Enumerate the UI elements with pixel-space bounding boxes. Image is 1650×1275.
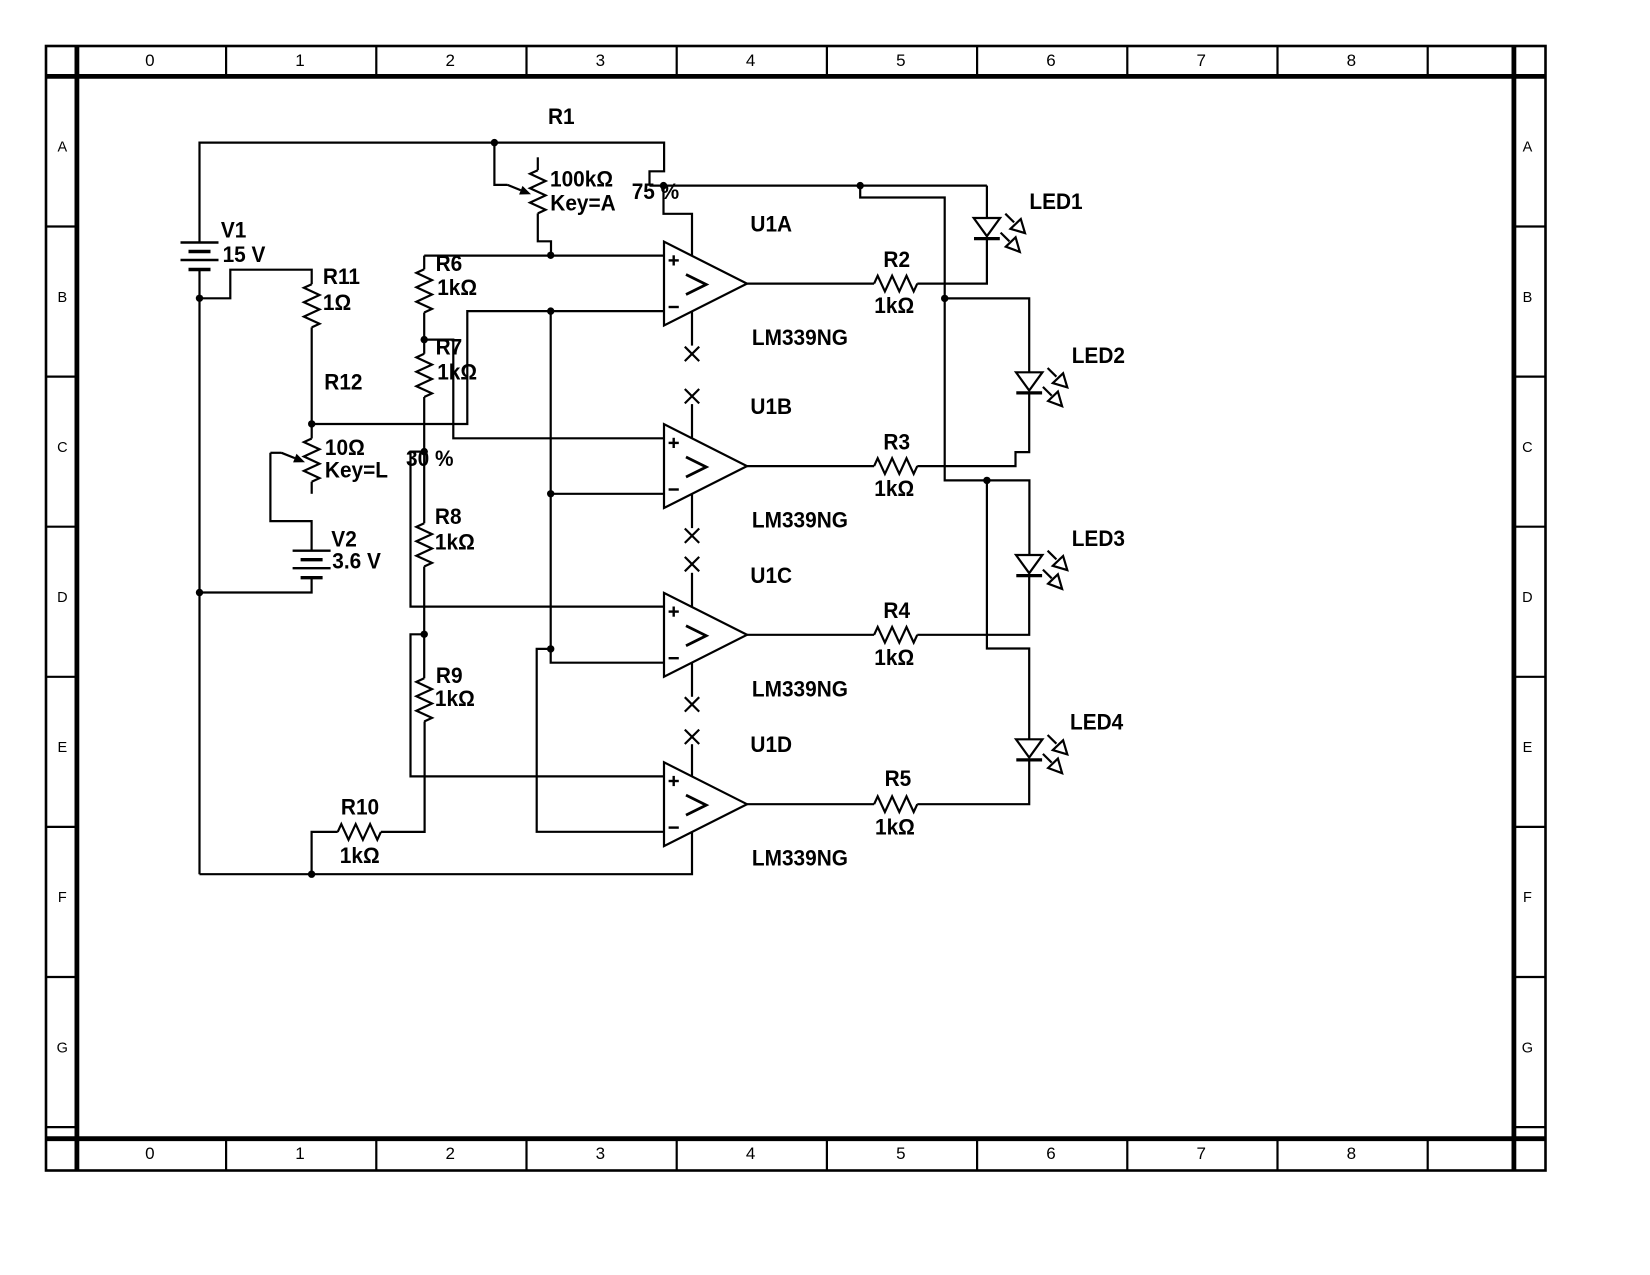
svg-text:5: 5 — [896, 51, 905, 70]
svg-text:1kΩ: 1kΩ — [874, 475, 914, 501]
svg-text:R2: R2 — [883, 246, 910, 272]
svg-text:1Ω: 1Ω — [323, 289, 351, 315]
battery V1 — [181, 241, 219, 243]
junction V1 minus / R11 branch — [196, 295, 203, 302]
svg-text:4: 4 — [746, 1144, 755, 1163]
svg-text:LED4: LED4 — [1070, 709, 1123, 735]
svg-text:1: 1 — [295, 51, 304, 70]
svg-text:R6: R6 — [436, 250, 463, 276]
wire R4 to LED3 cathode — [917, 576, 1029, 635]
U1B VCC pin (unconnected) — [685, 389, 699, 403]
svg-text:LM339NG: LM339NG — [752, 676, 848, 702]
wire R10 right to R9 bottom — [381, 722, 425, 832]
wire V+ left rail and top rail — [200, 143, 665, 875]
wire V2 minus to left rail — [200, 578, 312, 593]
potentiometer R12 body — [311, 424, 313, 439]
resistor R8 — [423, 452, 425, 524]
svg-text:6: 6 — [1046, 51, 1055, 70]
svg-text:A: A — [57, 140, 67, 156]
svg-text:U1B: U1B — [750, 393, 792, 419]
resistor R2 — [874, 276, 917, 292]
wire V+ to LED4 anode — [987, 480, 1029, 739]
LED LED2 — [1016, 372, 1042, 390]
wire U1D output — [747, 803, 874, 805]
junction R7/R8 node — [421, 448, 428, 455]
svg-text:U1C: U1C — [750, 562, 792, 588]
svg-text:100kΩ: 100kΩ — [550, 166, 613, 192]
junction inverting bus / U1B minus — [547, 490, 554, 497]
junction bottom rail / R10 branch — [308, 871, 315, 878]
svg-text:F: F — [1523, 890, 1532, 906]
battery V2 — [293, 550, 331, 552]
svg-text:4: 4 — [746, 51, 755, 70]
svg-text:U1D: U1D — [750, 731, 792, 757]
svg-text:15 V: 15 V — [223, 241, 266, 267]
svg-text:E: E — [1523, 740, 1533, 756]
resistor R4 — [874, 627, 917, 643]
wire bus node to U1D inverting input — [537, 649, 664, 832]
svg-text:R9: R9 — [436, 662, 463, 688]
junction V+ / LED2 anode branch — [941, 295, 948, 302]
wire R2 to LED1 cathode — [917, 239, 987, 284]
junction R1 bottom on U1A+ net — [547, 252, 554, 259]
wire U1B inverting input — [551, 493, 664, 495]
svg-text:V1: V1 — [221, 217, 246, 243]
svg-text:3: 3 — [596, 1144, 605, 1163]
svg-text:D: D — [1522, 590, 1532, 606]
svg-text:R5: R5 — [885, 765, 912, 791]
svg-text:5: 5 — [896, 1144, 905, 1163]
svg-text:1kΩ: 1kΩ — [435, 529, 475, 555]
resistor R3 — [874, 458, 917, 474]
U1D VCC pin (unconnected) — [685, 730, 699, 744]
junction R6/R7 node — [421, 336, 428, 343]
wire R6/R7 node to U1B non-inverting input — [424, 340, 664, 439]
resistor R5 — [874, 796, 917, 812]
wire V+ to LED1 anode — [986, 186, 988, 218]
wire R12 wiper to V2 plus — [270, 453, 311, 551]
wire bottom rail — [200, 832, 693, 874]
svg-text:R7: R7 — [436, 334, 463, 360]
svg-text:R8: R8 — [435, 503, 462, 529]
junction inverting bus lower node — [547, 645, 554, 652]
svg-text:LM339NG: LM339NG — [752, 324, 848, 350]
svg-text:LED2: LED2 — [1072, 342, 1125, 368]
resistor R10 — [338, 824, 381, 840]
LED LED1 — [974, 218, 1000, 236]
svg-text:3: 3 — [596, 51, 605, 70]
svg-text:G: G — [57, 1040, 68, 1056]
wire R5 to LED4 cathode — [917, 760, 1029, 804]
svg-text:R12: R12 — [324, 369, 362, 395]
svg-text:R4: R4 — [883, 597, 910, 623]
junction 75% net / V+ distribution — [857, 182, 864, 189]
wire V+ to LED2 anode — [945, 298, 1029, 372]
svg-text:0: 0 — [145, 1144, 154, 1163]
svg-text:1kΩ: 1kΩ — [340, 842, 380, 868]
wire R3 to LED2 cathode — [917, 393, 1029, 466]
wire U1A VCC pin to 75% net — [664, 186, 693, 256]
wire R8/R9 node to U1D non-inverting input — [411, 634, 665, 776]
junction left rail / V2 branch — [196, 589, 203, 596]
resistor R11 — [304, 284, 320, 327]
svg-text:1kΩ: 1kΩ — [437, 359, 477, 385]
U1C ground pin (unconnected) — [691, 663, 693, 697]
junction inverting bus tap at U1A — [547, 307, 554, 314]
svg-text:8: 8 — [1347, 51, 1356, 70]
junction top rail / R1 wiper — [491, 139, 498, 146]
U1C VCC pin (unconnected) — [685, 557, 699, 571]
resistor R9 — [423, 634, 425, 678]
wire R11 bottom to R12 — [311, 327, 313, 424]
junction 75% net / U1A VCC — [660, 182, 667, 189]
wire U1A non-inverting input / R6 top — [424, 255, 664, 257]
svg-text:B: B — [57, 290, 67, 306]
svg-text:2: 2 — [445, 51, 454, 70]
op-amp comparator U1A — [664, 242, 747, 326]
svg-text:G: G — [1522, 1040, 1533, 1056]
potentiometer R12 wiper arrow — [270, 452, 281, 454]
resistor R6 — [423, 256, 425, 270]
LED LED4 — [1016, 739, 1042, 757]
wire inverting bus down to U1C node — [550, 311, 552, 649]
U1B ground pin (unconnected) — [691, 494, 693, 528]
svg-text:R1: R1 — [548, 103, 575, 129]
svg-text:3.6 V: 3.6 V — [332, 548, 381, 574]
wire R7/R8 node to U1C non-inverting input — [411, 452, 665, 607]
potentiometer R1 wiper arrow — [494, 143, 507, 185]
wire 75% net horizontal — [650, 185, 987, 187]
junction R11/R12 node — [308, 420, 315, 427]
svg-text:LM339NG: LM339NG — [752, 507, 848, 533]
junction R8/R9 node — [421, 631, 428, 638]
svg-text:Key=L: Key=L — [325, 457, 388, 483]
wire R10 left stub — [312, 832, 338, 874]
svg-text:C: C — [1522, 440, 1532, 456]
svg-text:F: F — [58, 890, 67, 906]
potentiometer R1 body — [537, 157, 539, 170]
wire U1A output — [747, 283, 874, 285]
svg-text:R3: R3 — [883, 429, 910, 455]
op-amp comparator U1B — [664, 424, 747, 508]
svg-text:LED3: LED3 — [1072, 525, 1125, 551]
svg-text:1kΩ: 1kΩ — [437, 274, 477, 300]
svg-text:Key=A: Key=A — [550, 190, 616, 216]
svg-text:R11: R11 — [323, 263, 360, 289]
svg-text:2: 2 — [445, 1144, 454, 1163]
svg-text:1kΩ: 1kΩ — [875, 814, 915, 840]
svg-text:75 %: 75 % — [632, 178, 679, 204]
wire bus node to U1C inverting input — [551, 649, 664, 663]
svg-text:30 %: 30 % — [406, 445, 453, 471]
svg-text:A: A — [1523, 140, 1533, 156]
svg-text:E: E — [57, 740, 67, 756]
svg-text:C: C — [57, 440, 67, 456]
wire V1 minus to R11 — [200, 270, 312, 299]
svg-text:B: B — [1523, 290, 1533, 306]
LED LED3 — [1016, 555, 1042, 573]
svg-text:0: 0 — [145, 51, 154, 70]
wire U1B output — [747, 465, 874, 467]
op-amp comparator U1C — [664, 593, 747, 677]
junction V+ / LED4 anode branch — [983, 477, 990, 484]
wire R11/R12 node to U1A inverting input — [312, 311, 664, 424]
svg-text:LED1: LED1 — [1029, 188, 1082, 214]
svg-text:LM339NG: LM339NG — [752, 845, 848, 871]
svg-text:U1A: U1A — [750, 211, 792, 237]
svg-text:R10: R10 — [341, 794, 379, 820]
wire V+ distribution vertical — [860, 186, 1029, 555]
svg-text:7: 7 — [1196, 51, 1205, 70]
U1A ground pin (unconnected) — [691, 311, 693, 345]
svg-text:7: 7 — [1196, 1144, 1205, 1163]
svg-text:6: 6 — [1046, 1144, 1055, 1163]
svg-text:1: 1 — [295, 1144, 304, 1163]
op-amp comparator U1D — [664, 762, 747, 846]
svg-text:8: 8 — [1347, 1144, 1356, 1163]
resistor R7 — [423, 340, 425, 354]
svg-text:1kΩ: 1kΩ — [874, 644, 914, 670]
wire U1C output — [747, 634, 874, 636]
svg-text:1kΩ: 1kΩ — [435, 685, 475, 711]
svg-text:1kΩ: 1kΩ — [874, 292, 914, 318]
svg-text:D: D — [57, 590, 67, 606]
